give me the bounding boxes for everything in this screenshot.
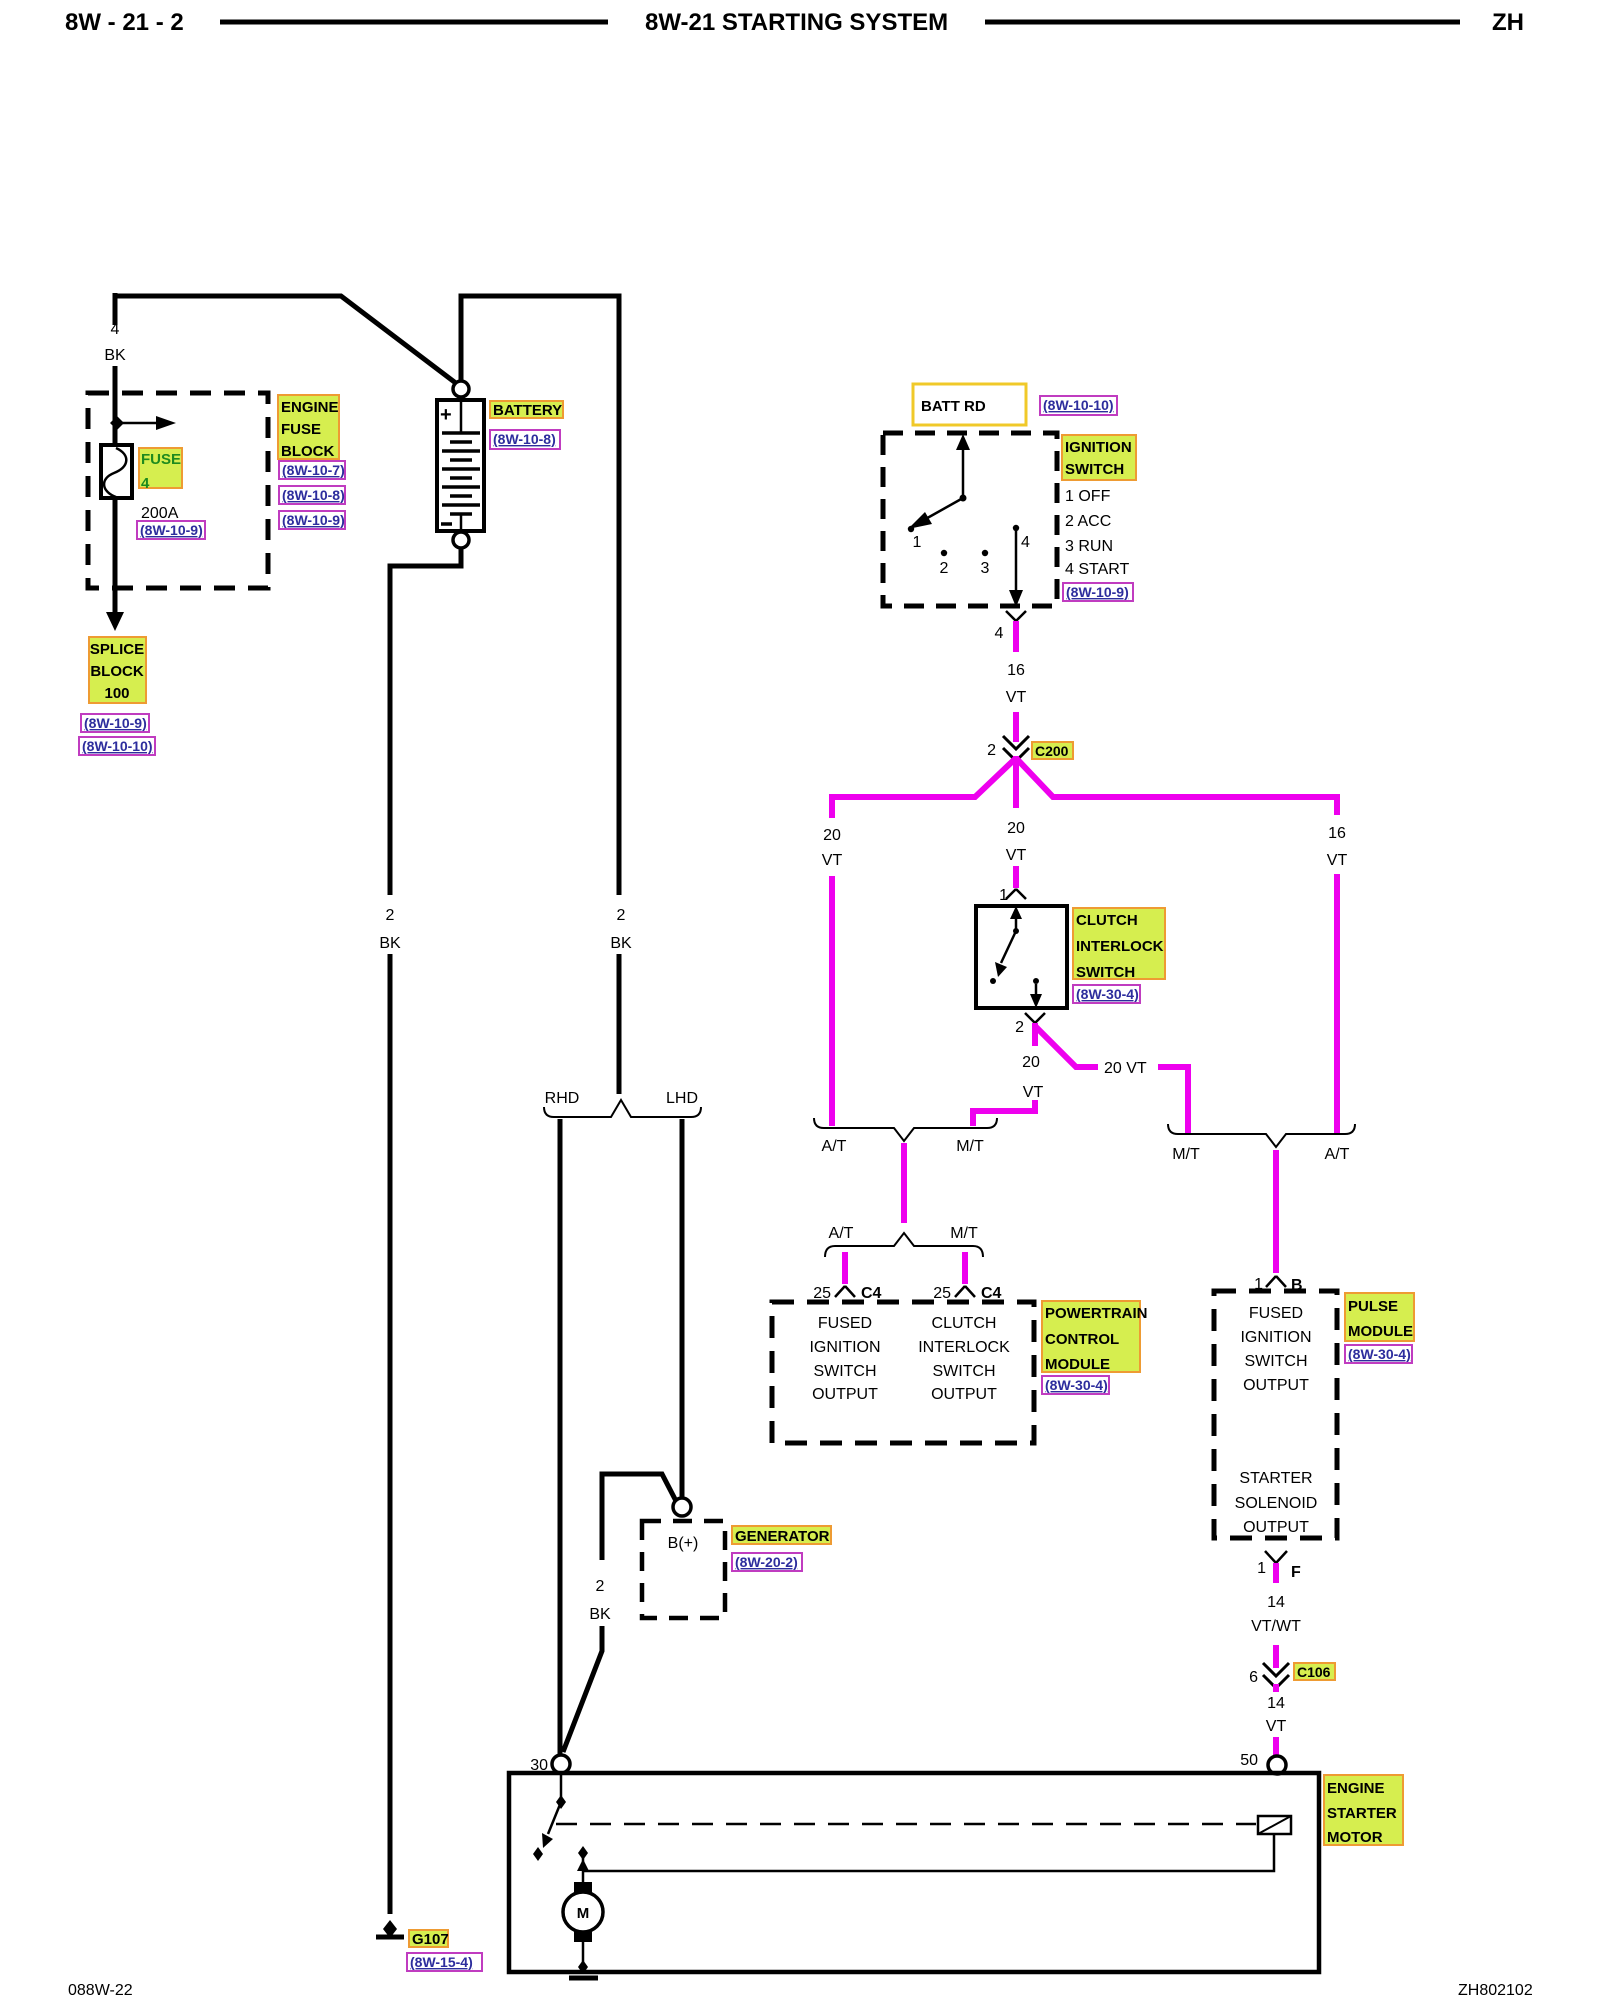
wire C200 splice left branch — [832, 758, 1016, 818]
wire LHD leg to generator — [680, 1119, 685, 1498]
connector pin 4 ignition — [995, 611, 1026, 642]
wire 16 VT upper stub — [1013, 621, 1019, 652]
ignition switch wiper arm — [908, 498, 963, 529]
svg-text:G107: G107 — [412, 1931, 449, 1948]
battery B1 — [437, 381, 484, 548]
wire generator output elbow — [602, 1474, 676, 1560]
svg-text:MODULE: MODULE — [1348, 1323, 1413, 1340]
link 8W-10-9 ignition — [1063, 583, 1133, 601]
svg-text:C200: C200 — [1035, 743, 1069, 759]
svg-text:2: 2 — [1015, 1019, 1024, 1036]
svg-text:3 RUN: 3 RUN — [1065, 538, 1113, 555]
svg-text:BK: BK — [610, 935, 632, 952]
svg-text:RHD: RHD — [545, 1090, 580, 1107]
svg-text:BATT RD: BATT RD — [921, 398, 986, 415]
brace merge left A/T M/T — [814, 1118, 997, 1141]
svg-text:STARTER: STARTER — [1327, 1805, 1397, 1822]
wire RHD leg to starter — [558, 1119, 563, 1754]
svg-text:PULSE: PULSE — [1348, 1298, 1398, 1315]
svg-text:CLUTCH: CLUTCH — [932, 1315, 997, 1332]
label 20 VT clutch output — [1022, 1054, 1043, 1101]
svg-text:20: 20 — [1007, 820, 1025, 837]
wire battery positive to right feed — [461, 296, 619, 895]
wire A/T leg to C4 — [842, 1252, 848, 1284]
brace split RHD LHD — [544, 1100, 701, 1117]
svg-text:8W - 21 - 2: 8W - 21 - 2 — [65, 9, 184, 36]
svg-text:SWITCH: SWITCH — [1244, 1353, 1307, 1370]
svg-text:OUTPUT: OUTPUT — [1243, 1519, 1309, 1536]
solenoid coil — [1258, 1816, 1291, 1834]
svg-text:(8W-30-4): (8W-30-4) — [1045, 1377, 1108, 1393]
svg-text:INTERLOCK: INTERLOCK — [918, 1339, 1010, 1356]
terminal 50 — [1240, 1752, 1286, 1774]
label ENGINE STARTER MOTOR — [1324, 1775, 1403, 1846]
svg-text:(8W-10-10): (8W-10-10) — [82, 738, 153, 754]
svg-text:ENGINE: ENGINE — [1327, 1780, 1385, 1797]
label 2 BK generator — [589, 1578, 611, 1623]
svg-text:16: 16 — [1328, 825, 1346, 842]
svg-text:SPLICE: SPLICE — [90, 641, 144, 658]
label IGNITION SWITCH — [1062, 435, 1136, 480]
wire clutch output to left M/T — [973, 1100, 1035, 1126]
svg-text:IGNITION: IGNITION — [1065, 439, 1132, 456]
svg-text:4: 4 — [995, 625, 1004, 642]
wire left branch down to A/T — [829, 876, 835, 1126]
svg-text:FUSED: FUSED — [1249, 1305, 1303, 1322]
svg-text:B(+): B(+) — [668, 1535, 699, 1552]
label 20 VT left branch — [822, 827, 843, 869]
svg-text:8W-21 STARTING SYSTEM: 8W-21 STARTING SYSTEM — [645, 9, 948, 36]
header rule left — [220, 20, 608, 25]
svg-text:OUTPUT: OUTPUT — [812, 1386, 878, 1403]
link 8W-30-4 pcm — [1042, 1376, 1109, 1394]
svg-text:M/T: M/T — [956, 1138, 984, 1155]
ignition contact 3 — [981, 550, 990, 577]
svg-text:(8W-10-10): (8W-10-10) — [1043, 397, 1114, 413]
svg-text:M: M — [577, 1905, 590, 1922]
label FUSE 4 — [139, 448, 182, 492]
connector 1 B pulse module — [1254, 1276, 1302, 1294]
svg-text:1 OFF: 1 OFF — [1065, 488, 1111, 505]
link 8W-10-9 — [279, 511, 345, 529]
wire 4 BK into fuse — [113, 366, 118, 447]
ignition contact 1 — [908, 526, 922, 551]
svg-text:20: 20 — [1022, 1054, 1040, 1071]
wire to starter solenoid 50 — [1273, 1737, 1279, 1756]
connector C200 symbol — [987, 736, 1029, 761]
label ENGINE FUSE BLOCK — [278, 395, 339, 460]
label switch positions — [1065, 488, 1130, 578]
header rule right — [985, 20, 1460, 25]
svg-text:+: + — [440, 404, 452, 426]
svg-text:1: 1 — [913, 534, 922, 551]
svg-text:4: 4 — [141, 475, 150, 492]
svg-text:M/T: M/T — [950, 1225, 978, 1242]
connector pin 2 clutch switch — [1015, 1013, 1045, 1036]
svg-text:FUSE: FUSE — [141, 451, 181, 468]
svg-text:3: 3 — [981, 560, 990, 577]
label G107 — [409, 1930, 449, 1948]
svg-text:VT: VT — [1006, 689, 1027, 706]
wire C200 splice right branch — [1016, 758, 1337, 815]
footer left — [68, 1982, 133, 1999]
label 4 BK — [104, 321, 126, 364]
label RHD — [545, 1090, 580, 1107]
svg-text:CONTROL: CONTROL — [1045, 1331, 1119, 1348]
solenoid actuation dashed line — [556, 1823, 1256, 1826]
svg-text:IGNITION: IGNITION — [1240, 1329, 1311, 1346]
label 14 VT/WT — [1251, 1594, 1301, 1635]
svg-text:ZH: ZH — [1492, 9, 1524, 36]
connector 25 C4 right — [933, 1285, 1001, 1302]
wire C106 stub below — [1273, 1684, 1279, 1692]
wire to C106 — [1273, 1645, 1279, 1668]
svg-text:OUTPUT: OUTPUT — [1243, 1377, 1309, 1394]
wire 4 BK upper segment — [113, 293, 118, 325]
ignition switch feed arrow up — [956, 434, 970, 502]
svg-text:C4: C4 — [861, 1285, 882, 1302]
svg-text:(8W-10-8): (8W-10-8) — [493, 431, 556, 447]
link 8W-10-9 fuse — [137, 521, 205, 539]
link 8W-30-4 clutch — [1073, 985, 1140, 1003]
svg-text:2 ACC: 2 ACC — [1065, 513, 1111, 530]
svg-text:1: 1 — [999, 887, 1008, 904]
svg-text:(8W-10-9): (8W-10-9) — [140, 522, 203, 538]
svg-text:4 START: 4 START — [1065, 561, 1130, 578]
node FUSED IGNITION SWITCH OUTPUT — [809, 1315, 880, 1403]
label POWERTRAIN CONTROL MODULE — [1042, 1301, 1148, 1373]
label 20 VT inline — [1104, 1060, 1147, 1077]
generator terminal circle — [673, 1498, 691, 1516]
ignition contact 2 — [940, 550, 949, 577]
svg-text:F: F — [1291, 1564, 1301, 1581]
svg-text:FUSE: FUSE — [281, 421, 321, 438]
svg-text:FUSED: FUSED — [818, 1315, 872, 1332]
label 2 BK left wire — [379, 907, 401, 952]
header left page number — [65, 9, 184, 36]
svg-text:6: 6 — [1249, 1669, 1258, 1686]
svg-text:200A: 200A — [141, 505, 179, 522]
svg-text:1: 1 — [1257, 1560, 1266, 1577]
svg-text:2: 2 — [596, 1578, 605, 1595]
svg-text:(8W-10-9): (8W-10-9) — [84, 715, 147, 731]
svg-text:STARTER: STARTER — [1239, 1470, 1312, 1487]
label 16 VT right branch — [1327, 825, 1348, 869]
svg-text:25: 25 — [933, 1285, 951, 1302]
svg-text:SWITCH: SWITCH — [813, 1363, 876, 1380]
svg-text:20: 20 — [823, 827, 841, 844]
svg-text:INTERLOCK: INTERLOCK — [1076, 938, 1164, 955]
wire clutch pin2 stub — [1032, 1023, 1038, 1046]
svg-text:MOTOR: MOTOR — [1327, 1829, 1383, 1846]
svg-text:POWERTRAIN: POWERTRAIN — [1045, 1305, 1148, 1322]
solenoid contact arm from 30 — [533, 1773, 566, 1861]
motor ground — [569, 1960, 598, 1978]
svg-text:GENERATOR: GENERATOR — [735, 1528, 830, 1545]
node STARTER SOLENOID OUTPUT — [1235, 1470, 1318, 1536]
svg-text:A/T: A/T — [829, 1225, 854, 1242]
wire right M/T drop — [1158, 1067, 1188, 1133]
label B(+) — [668, 1535, 699, 1552]
powertrain control module dashed box — [772, 1302, 1034, 1443]
svg-text:25: 25 — [813, 1285, 831, 1302]
pulse module dashed box — [1214, 1291, 1337, 1538]
label A/T split brace — [829, 1225, 854, 1242]
wire battery negative upper — [390, 548, 461, 895]
link 8W-20-2 — [732, 1553, 802, 1571]
ignition switch S1 dashed box — [883, 433, 1057, 606]
svg-text:VT: VT — [1327, 852, 1348, 869]
label C200 — [1032, 742, 1073, 759]
clutch switch contact pin 2 — [1030, 978, 1042, 1008]
wire C200 splice center branch — [1013, 756, 1019, 808]
label M/T right brace — [1172, 1146, 1200, 1163]
svg-text:(8W-10-9): (8W-10-9) — [282, 512, 345, 528]
svg-text:ZH802102: ZH802102 — [1458, 1982, 1533, 1999]
brace split A/T M/T to PCM — [825, 1233, 983, 1257]
label M/T left brace — [956, 1138, 984, 1155]
svg-text:BK: BK — [589, 1606, 611, 1623]
ignition contact 4 — [1013, 525, 1030, 551]
wire right feed to RHD/LHD split — [617, 954, 622, 1094]
svg-text:VT: VT — [1006, 847, 1027, 864]
svg-text:2: 2 — [987, 742, 996, 759]
svg-text:VT: VT — [1266, 1718, 1287, 1735]
svg-text:IGNITION: IGNITION — [809, 1339, 880, 1356]
svg-text:M/T: M/T — [1172, 1146, 1200, 1163]
feed arrow inside fuse block — [110, 416, 176, 430]
label PULSE MODULE — [1345, 1293, 1414, 1341]
link 8W-10-7 — [279, 461, 345, 479]
svg-text:BK: BK — [379, 935, 401, 952]
wire clutch output diagonal right — [1035, 1026, 1098, 1067]
label A/T right brace — [1325, 1146, 1350, 1163]
svg-text:(8W-10-7): (8W-10-7) — [282, 462, 345, 478]
svg-text:VT: VT — [1023, 1084, 1044, 1101]
clutch switch arm — [990, 931, 1016, 984]
engine starter motor box — [509, 1773, 1319, 1972]
clutch switch arrow up — [1010, 906, 1022, 934]
wire generator to terminal 30 — [563, 1626, 602, 1752]
label BATTERY — [490, 401, 563, 419]
label 2 BK right wire — [610, 907, 632, 952]
generator G1 dashed box — [642, 1521, 725, 1618]
link 8W-10-10 splice — [79, 737, 155, 755]
svg-text:VT: VT — [822, 852, 843, 869]
wire PCM feed from left brace — [901, 1143, 907, 1223]
wire 14 VT/WT stub — [1273, 1563, 1279, 1583]
svg-text:088W-22: 088W-22 — [68, 1982, 133, 1999]
svg-text:SOLENOID: SOLENOID — [1235, 1495, 1318, 1512]
svg-text:2: 2 — [386, 907, 395, 924]
clutch interlock switch S2 box — [976, 906, 1067, 1008]
ignition output arrow pin 4 — [1009, 531, 1023, 607]
svg-text:BK: BK — [104, 347, 126, 364]
link 8W-10-8 — [279, 486, 345, 504]
label 20 VT center — [1006, 820, 1027, 864]
svg-text:OUTPUT: OUTPUT — [931, 1386, 997, 1403]
svg-text:2: 2 — [617, 907, 626, 924]
svg-text:(8W-10-8): (8W-10-8) — [282, 487, 345, 503]
svg-text:ENGINE: ENGINE — [281, 399, 339, 416]
svg-text:SWITCH: SWITCH — [932, 1363, 995, 1380]
label A/T left brace — [822, 1138, 847, 1155]
svg-text:LHD: LHD — [666, 1090, 698, 1107]
svg-text:2: 2 — [940, 560, 949, 577]
ground G107 — [376, 1920, 404, 1938]
svg-text:20 VT: 20 VT — [1104, 1060, 1147, 1077]
header title — [645, 9, 948, 36]
svg-text:BLOCK: BLOCK — [281, 443, 334, 460]
label 14 VT — [1266, 1695, 1287, 1735]
link 8W-30-4 pulse — [1345, 1345, 1412, 1363]
link 8W-15-4 — [407, 1953, 482, 1971]
svg-text:14: 14 — [1267, 1594, 1285, 1611]
link 8W-10-10 batt rd — [1040, 396, 1117, 415]
link 8W-10-8 battery — [490, 430, 560, 449]
node BATT RD — [913, 384, 1026, 425]
svg-text:CLUTCH: CLUTCH — [1076, 912, 1138, 929]
wire M/T leg to C4 — [962, 1252, 968, 1284]
starter motor M — [563, 1882, 603, 1966]
label GENERATOR — [732, 1526, 831, 1545]
label 16 VT — [1006, 662, 1027, 706]
wire battery positive feed to fuse block — [115, 296, 461, 387]
wire right branch down to A/T — [1334, 874, 1340, 1133]
svg-text:BATTERY: BATTERY — [493, 402, 562, 419]
svg-text:14: 14 — [1267, 1695, 1285, 1712]
svg-text:50: 50 — [1240, 1752, 1258, 1769]
motor contact — [577, 1846, 589, 1884]
svg-text:C106: C106 — [1297, 1664, 1331, 1680]
label SPLICE BLOCK 100 — [89, 637, 146, 703]
connector pin 1 clutch switch — [999, 887, 1026, 904]
svg-text:(8W-30-4): (8W-30-4) — [1348, 1346, 1411, 1362]
terminal 30 — [530, 1755, 570, 1774]
svg-text:A/T: A/T — [822, 1138, 847, 1155]
svg-text:MODULE: MODULE — [1045, 1356, 1110, 1373]
connector 1 F pulse output — [1257, 1551, 1301, 1581]
svg-text:SWITCH: SWITCH — [1076, 964, 1135, 981]
svg-text:(8W-20-2): (8W-20-2) — [735, 1554, 798, 1570]
svg-text:100: 100 — [104, 685, 129, 702]
header ZH — [1492, 9, 1524, 36]
brace merge right M/T A/T — [1168, 1124, 1355, 1147]
svg-text:(8W-10-9): (8W-10-9) — [1066, 584, 1129, 600]
label 200A — [141, 505, 179, 522]
footer right — [1458, 1982, 1533, 1999]
svg-text:VT/WT: VT/WT — [1251, 1618, 1301, 1635]
wire fuse output to splice arrow — [106, 498, 124, 631]
label LHD — [666, 1090, 698, 1107]
wire pulse module feed — [1273, 1150, 1279, 1273]
svg-text:C4: C4 — [981, 1285, 1002, 1302]
wire solenoid to motor contact — [584, 1834, 1274, 1871]
connector 25 C4 left — [813, 1285, 881, 1302]
wire battery negative to ground — [388, 954, 393, 1914]
svg-text:(8W-15-4): (8W-15-4) — [410, 1954, 473, 1970]
label M/T split brace — [950, 1225, 978, 1242]
wire center branch to clutch pin 1 — [1013, 866, 1019, 888]
engine fuse block dashed box — [88, 393, 268, 588]
svg-text:BLOCK: BLOCK — [90, 663, 143, 680]
wire 16 VT lower stub — [1013, 712, 1019, 742]
svg-text:16: 16 — [1007, 662, 1025, 679]
svg-text:4: 4 — [1021, 534, 1030, 551]
svg-text:(8W-30-4): (8W-30-4) — [1076, 986, 1139, 1002]
fuse F4 symbol — [101, 445, 132, 498]
link 8W-10-9 splice — [81, 714, 149, 732]
label CLUTCH INTERLOCK SWITCH — [1073, 908, 1165, 981]
node CLUTCH INTERLOCK SWITCH OUTPUT — [918, 1315, 1010, 1403]
node FUSED IGNITION SWITCH OUTPUT pulse — [1240, 1305, 1311, 1394]
label C106 — [1294, 1663, 1335, 1680]
svg-text:A/T: A/T — [1325, 1146, 1350, 1163]
svg-text:4: 4 — [111, 321, 120, 338]
svg-text:SWITCH: SWITCH — [1065, 461, 1124, 478]
connector C106 symbol — [1249, 1663, 1289, 1688]
